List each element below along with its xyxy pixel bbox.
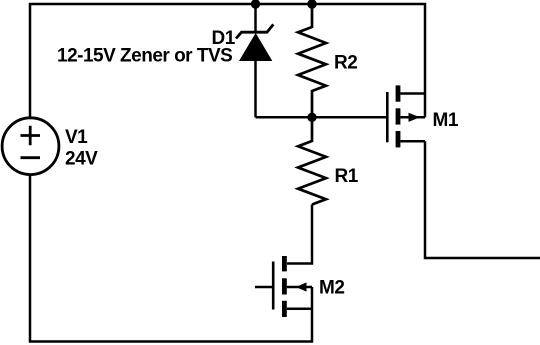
transistor M1 body lead with arrow bbox=[400, 116, 425, 119]
transistor M2 source lead bbox=[287, 307, 312, 310]
svg-text:24V: 24V bbox=[65, 149, 98, 170]
wire D1 anode down bbox=[254, 60, 257, 117]
V1 plus symbol bbox=[21, 126, 41, 145]
transistor M2 channel bars bbox=[282, 256, 287, 271]
svg-text:V1: V1 bbox=[65, 127, 88, 148]
transistor M1 channel bars bbox=[396, 85, 401, 101]
transistor M2 gate bar bbox=[272, 262, 275, 310]
node junction top right bbox=[307, 0, 316, 9]
node junction top left bbox=[251, 0, 260, 9]
transistor M1 gate bar bbox=[386, 92, 389, 142]
svg-text:M2: M2 bbox=[319, 278, 344, 299]
wire R1 to M2 drain bbox=[287, 205, 312, 264]
wire gate net horizontal bbox=[256, 116, 387, 119]
svg-text:12-15V Zener or TVS: 12-15V Zener or TVS bbox=[57, 46, 232, 67]
node junction gate net bbox=[307, 113, 316, 122]
transistor M1 drain lead bbox=[400, 92, 425, 95]
voltage source V1 circle bbox=[2, 118, 59, 175]
V1 minus symbol bbox=[21, 156, 41, 159]
svg-text:R1: R1 bbox=[335, 166, 359, 187]
wire M1 source to output bbox=[425, 141, 540, 258]
transistor M2 gate stub bbox=[255, 286, 272, 289]
resistor R1 bbox=[298, 117, 326, 204]
diode D1 zener cathode bar bbox=[236, 24, 273, 38]
wire D1 cathode from top rail bbox=[254, 4, 257, 32]
resistor R2 bbox=[298, 4, 326, 117]
transistor M1 source lead bbox=[400, 140, 425, 143]
transistor M2 body lead with arrow bbox=[287, 286, 312, 289]
wire left bottom, bottom rail, M2 source vertical bbox=[30, 175, 312, 342]
svg-text:M1: M1 bbox=[433, 110, 459, 131]
svg-text:R2: R2 bbox=[334, 53, 357, 74]
diode D1 triangle bbox=[239, 33, 272, 61]
wire top rail with left and right verticals bbox=[30, 4, 425, 118]
